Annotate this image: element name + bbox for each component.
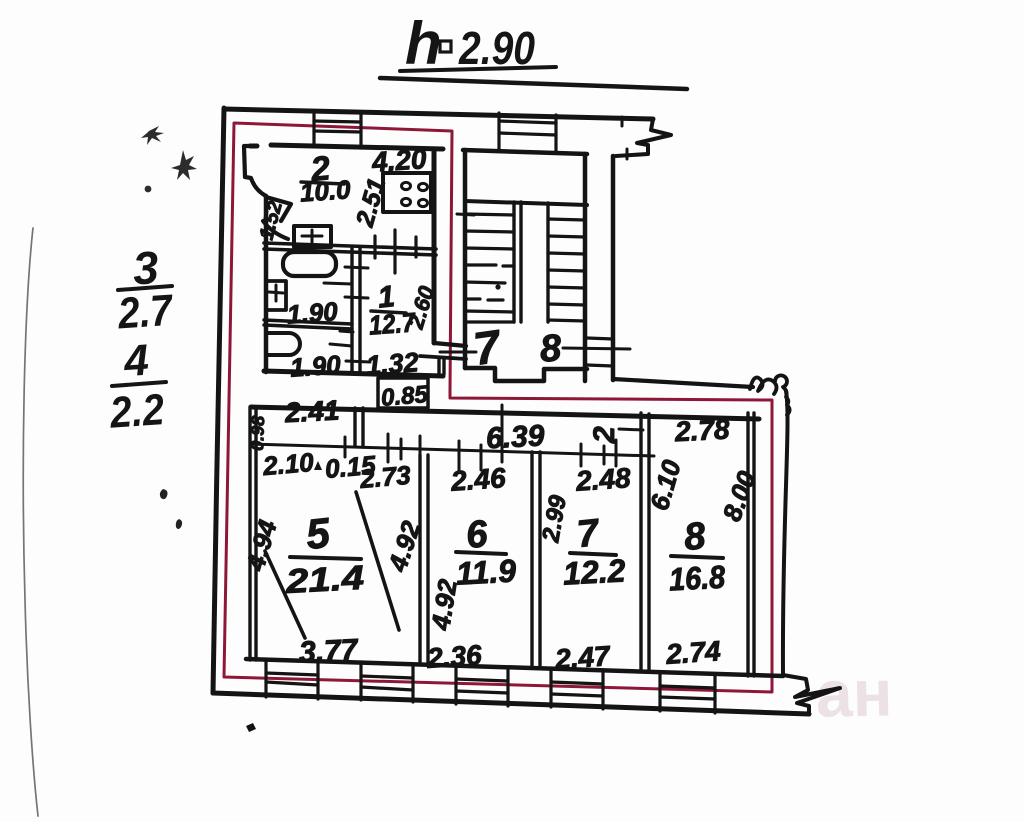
chamfer hatch stroke [263,221,288,239]
top wall end tick [621,117,624,126]
wall between rooms 5 and 6 [420,455,428,662]
wall between rooms 6 and 7 [532,452,540,665]
ink star 2 [171,150,197,180]
stairwell top wall [463,150,587,154]
svg-text:2: 2 [588,426,621,444]
landing line [465,201,587,205]
kitchen right wall [432,149,437,343]
kitchen chamfer wall [266,197,291,221]
east corridor wall [611,156,616,380]
svg-text:2.47: 2.47 [553,640,612,675]
svg-text:1.90: 1.90 [289,349,342,382]
svg-text:2.78: 2.78 [673,413,730,447]
svg-text:8: 8 [539,327,564,370]
sink [294,226,331,247]
stair label 8 leader [563,348,630,349]
bottom wall break symbol [783,675,840,714]
top block bottom wall [264,371,443,376]
svg-text:12.2: 12.2 [562,552,626,591]
inner top tick [626,149,629,159]
stove [383,173,431,212]
corridor window lines [587,338,613,339]
stair window [499,113,556,152]
small triangle mark [314,461,322,470]
svg-text:2.48: 2.48 [574,462,632,497]
east outer wall with squiggle top [783,391,788,675]
bottom block left wall (double) [250,407,256,660]
kitchen/bath divider wall [264,243,436,249]
svg-text:6.39: 6.39 [485,419,545,455]
stairwell left wall [463,150,468,368]
wall below stairs to east [613,379,753,387]
kitchen top wall [250,145,443,149]
ink speck [176,519,182,529]
svg-text:21.4: 21.4 [284,559,365,601]
wall ticks [345,267,368,268]
bathtub-wall line [324,283,352,284]
svg-text:2.2: 2.2 [108,385,167,438]
outer bottom wall [213,693,809,714]
dim ticks [345,405,616,471]
right flight treads [548,219,585,321]
rooms bottom wall [246,659,783,676]
left wall tick [457,214,474,215]
bath left wall [264,196,269,372]
bottom window 5 [660,672,715,713]
svg-text:h: h [405,10,442,77]
ink star 1 [141,126,164,145]
room1 entry walls [434,343,466,346]
scribble flourish [750,375,790,415]
right flight edge [546,203,549,322]
ink dot bottom left [246,723,256,732]
ink dot [145,186,152,193]
dimension line [251,444,654,456]
washbasin [266,281,286,310]
outer top wall [224,109,653,119]
bathtub [283,252,336,276]
dash after rotated 2 [619,429,643,430]
0.85 box [378,378,428,408]
red apartment boundary [224,123,772,692]
svg-text:11.9: 11.9 [455,552,517,591]
wall between rooms 7 and 8 [641,413,649,671]
svg-text:16.8: 16.8 [668,559,726,598]
kitchen left niche [244,146,266,196]
svg-text:0.85: 0.85 [380,381,430,412]
kitchen window [314,111,361,148]
svg-text:2.41: 2.41 [283,394,340,428]
bottom window 2 [361,662,413,702]
svg-text:2.36: 2.36 [425,639,483,674]
stairwell right wall [583,154,588,381]
divider door ticks [373,236,376,258]
outer left wall [213,108,224,693]
svg-text:2.73: 2.73 [358,460,413,494]
title underline 1 [400,67,556,71]
bottom window 1 [266,659,318,699]
stairwell bottom wall with notch [465,368,587,381]
bottom window 3 [456,665,508,706]
stair center wall [514,202,521,322]
room5 diagonal short [265,551,305,638]
svg-text:1.32: 1.32 [365,347,420,381]
title underline 2 [380,78,687,89]
svg-text:2.7: 2.7 [115,286,175,339]
svg-text:2.74: 2.74 [664,635,722,670]
stair label 7 leader [440,351,476,354]
toilet door dash [330,344,352,346]
room5 diagonal long [356,492,399,630]
ink speck [160,489,168,499]
svg-text:2.46: 2.46 [449,462,507,497]
svg-text:10.0: 10.0 [299,174,352,207]
bottom block top wall [251,407,759,419]
left flight treads [465,214,514,322]
svg-text:4: 4 [122,336,151,387]
bath/toilet divider [264,320,352,324]
room 8 right wall [748,413,754,676]
wall stub [355,408,363,447]
svg-text:0.98: 0.98 [247,415,268,451]
top wall break symbol [616,119,671,156]
page edge curve [23,228,38,816]
bottom window 4 [551,668,603,709]
svg-text:3.77: 3.77 [298,633,359,669]
bath right wall (double) [350,247,353,372]
toilet [267,333,300,355]
svg-text:2.10: 2.10 [261,447,316,481]
